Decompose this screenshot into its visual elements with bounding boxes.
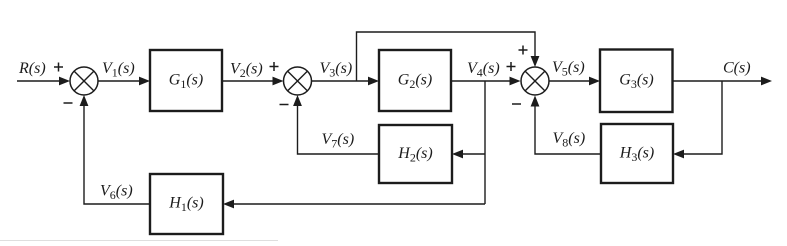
- svg-text:V1(s): V1(s): [102, 60, 135, 80]
- svg-text:V6(s): V6(s): [100, 183, 133, 203]
- svg-text:H3(s): H3(s): [619, 145, 654, 165]
- svg-text:V5(s): V5(s): [552, 59, 585, 79]
- svg-text:G3(s): G3(s): [619, 72, 653, 92]
- svg-text:G2(s): G2(s): [398, 72, 432, 92]
- svg-text:V2(s): V2(s): [230, 61, 263, 81]
- svg-text:V7(s): V7(s): [322, 131, 355, 151]
- svg-text:G1(s): G1(s): [169, 72, 203, 92]
- svg-text:R(s): R(s): [18, 60, 46, 77]
- svg-text:C(s): C(s): [723, 60, 751, 77]
- svg-text:V3(s): V3(s): [320, 60, 353, 80]
- svg-text:H2(s): H2(s): [397, 145, 432, 165]
- svg-text:H1(s): H1(s): [168, 195, 203, 215]
- svg-text:V4(s): V4(s): [467, 60, 500, 80]
- svg-text:V8(s): V8(s): [553, 130, 586, 150]
